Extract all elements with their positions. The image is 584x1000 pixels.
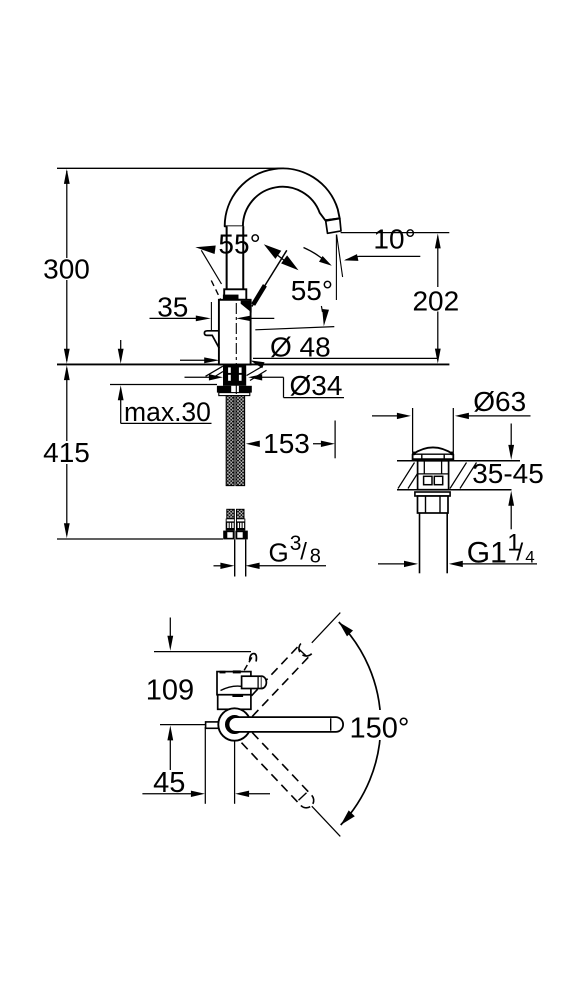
locknut [415,492,450,496]
dimension 415 [66,368,68,441]
svg-text:202: 202 [412,286,459,317]
lever root (dark) [241,301,252,313]
svg-text:G: G [269,538,289,568]
aerator joint line [325,218,340,220]
svg-text:max.30: max.30 [124,397,211,427]
dimension 109 [169,618,171,639]
svg-text:55°: 55° [218,229,260,260]
lever knob front view [242,676,262,688]
double bold arrow across lever [264,244,282,259]
hose fittings [226,519,235,531]
svg-text:35-45: 35-45 [472,458,544,489]
vertical reference line below outlet [335,235,337,301]
svg-text:8: 8 [310,546,321,568]
svg-text:/: / [300,539,307,566]
swivel ring [218,708,250,740]
dimension 300 [66,171,68,258]
svg-text:Ø63: Ø63 [473,386,526,417]
stop tab [206,722,220,728]
svg-text:45: 45 [153,767,185,799]
dimension G1 1/4 [378,563,414,565]
svg-text:4: 4 [525,548,534,567]
aerator (mousseur) [326,219,341,234]
hook on body left [204,331,219,349]
svg-text:415: 415 [43,437,90,468]
dimension G3/8 [214,565,230,567]
lever handle [252,250,287,306]
dashed spout arm upper [242,644,301,707]
extension line top (109) [154,651,251,653]
55 arc to vertical line [304,248,327,263]
dashed spout arm lower [252,733,312,796]
dimension max.30 [110,384,217,386]
washer [219,393,250,396]
extension line top of spout [57,167,284,169]
G3/8 threaded tails [234,539,236,576]
svg-text:153: 153 [263,428,310,459]
lever dashed position [211,281,220,300]
svg-text:Ø 48: Ø 48 [270,331,331,362]
flange nut [217,386,252,393]
mask for 150 text [348,710,411,740]
body front view: cap [217,672,251,695]
dimension 202 [437,237,439,288]
svg-text:10°: 10° [373,224,415,255]
lever tip curl [250,654,257,662]
150 deg swing arc [339,622,381,825]
dimension O34 [185,376,219,378]
svg-text:300: 300 [43,254,90,285]
svg-text:/: / [516,539,523,567]
spout vertical pipe [227,226,244,289]
threaded shank below deck [223,365,246,386]
body front view: base [218,695,251,710]
svg-text:109: 109 [146,674,194,706]
centre line of faucet [235,303,237,396]
waste body in deck [418,461,449,490]
waste tailpipe [419,513,421,573]
hose end stubs [227,509,235,518]
lever horizontal position line [255,327,334,330]
bottom reference line (415) [57,538,223,540]
waste cap dome [413,447,454,460]
deck hatching [398,463,415,489]
countertop hatching [206,366,223,376]
centre line left of ring [160,724,206,726]
dimension 35 [150,317,207,319]
flexible hoses (braided) [226,396,234,486]
spout arc (tube) [225,168,340,226]
collar on spout base [224,289,246,300]
collar black band [223,295,239,300]
svg-text:35: 35 [157,291,188,322]
deck / countertop line [57,363,449,365]
dimension 45 [204,727,206,804]
10 deg spray axis line [337,235,343,278]
spout top view (solid) [229,717,344,732]
svg-text:55°: 55° [291,275,333,306]
basin deck top line [397,460,520,462]
connection nuts [223,531,235,540]
faucet body [219,300,251,365]
svg-text:G1: G1 [467,536,507,569]
svg-text:150°: 150° [350,712,410,744]
svg-text:Ø34: Ø34 [290,370,343,401]
basin deck bottom line [397,489,512,491]
dimension 153 [246,441,260,447]
extension line from outlet (202) [341,232,450,234]
